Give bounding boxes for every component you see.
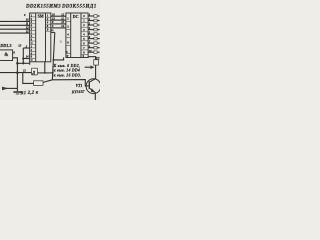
transistor VT1	[86, 79, 101, 94]
vertical branch wire	[22, 48, 24, 63]
svg-text:DD3: DD3	[61, 5, 73, 10]
decoder output cells	[81, 18, 88, 54]
wire stub	[29, 62, 30, 65]
svg-text:DC: DC	[73, 14, 79, 19]
wire with arrow to ground	[2, 87, 17, 89]
adder left column cells	[30, 17, 36, 58]
wire DC enable	[54, 57, 64, 60]
svg-text:Д: Д	[31, 71, 35, 75]
long node wire	[0, 72, 32, 74]
svg-text:&: &	[4, 53, 8, 58]
decoder output pin numbers	[88, 14, 92, 53]
junction dot	[22, 62, 24, 64]
junction dot	[52, 72, 54, 74]
svg-text:SM: SM	[38, 13, 44, 18]
stray mark	[60, 40, 62, 43]
svg-text:VT1: VT1	[76, 84, 83, 88]
wire R1 to node	[43, 80, 52, 83]
wire to R1	[23, 73, 34, 84]
junction dot	[22, 57, 24, 59]
adder right column cells	[46, 17, 51, 31]
svg-text:К155ИМ3: К155ИМ3	[36, 5, 61, 10]
pin numbers left of DD2	[24, 14, 29, 59]
wire R2 to collector	[95, 65, 97, 79]
svg-text:R1 2,2 к: R1 2,2 к	[20, 91, 39, 97]
junction dot	[16, 71, 19, 74]
input bus wire A1	[0, 20, 30, 22]
adder left column labels	[31, 13, 33, 62]
base wire	[52, 80, 88, 86]
junction dot	[53, 59, 55, 61]
svg-text:К555ИД1: К555ИД1	[72, 5, 97, 10]
svg-text:11: 11	[23, 69, 26, 73]
svg-text:к выв. 16 DD3.: к выв. 16 DD3.	[54, 73, 82, 77]
resistor R2	[94, 60, 99, 65]
svg-text:P: P	[47, 28, 49, 32]
wire	[17, 62, 29, 64]
emitter	[90, 89, 95, 101]
svg-text:Р: Р	[67, 54, 69, 58]
decoder output stubs with connector squares	[88, 15, 100, 54]
collector	[90, 79, 96, 82]
svg-text:13: 13	[18, 44, 22, 48]
wire branch to DD2	[23, 58, 29, 60]
wire to pin C	[23, 47, 29, 49]
arrow wire to node	[85, 66, 91, 68]
svg-text:C: C	[31, 58, 33, 62]
svg-text:КТ315Г: КТ315Г	[71, 90, 86, 95]
node vertical wire	[52, 32, 54, 79]
resistor R1	[34, 81, 43, 86]
carry output stub	[51, 31, 55, 33]
svg-text:к выв. 14 DD4: к выв. 14 DD4	[54, 69, 80, 73]
input bus wire A8	[0, 32, 30, 34]
decoder input labels	[66, 21, 71, 53]
svg-text:DD2: DD2	[25, 5, 37, 10]
input bus wire A4	[0, 28, 30, 30]
sensor box	[32, 68, 38, 75]
adder DD2 box	[30, 13, 51, 62]
junction dot	[16, 62, 19, 65]
wire from adder bottom pin	[44, 62, 46, 73]
gate output wire	[13, 58, 18, 92]
decoder DD3 box	[66, 13, 88, 58]
input bus wire A2	[0, 24, 30, 26]
adder output wires to decoder	[51, 15, 66, 17]
pin numbers between ICs	[51, 13, 65, 28]
svg-text:DD1.3: DD1.3	[0, 43, 11, 48]
gate DD1.3	[0, 50, 13, 61]
ground	[13, 91, 21, 93]
svg-text:К выв. 6 DD2,: К выв. 6 DD2,	[53, 64, 81, 68]
wire last output to R2	[88, 57, 96, 60]
